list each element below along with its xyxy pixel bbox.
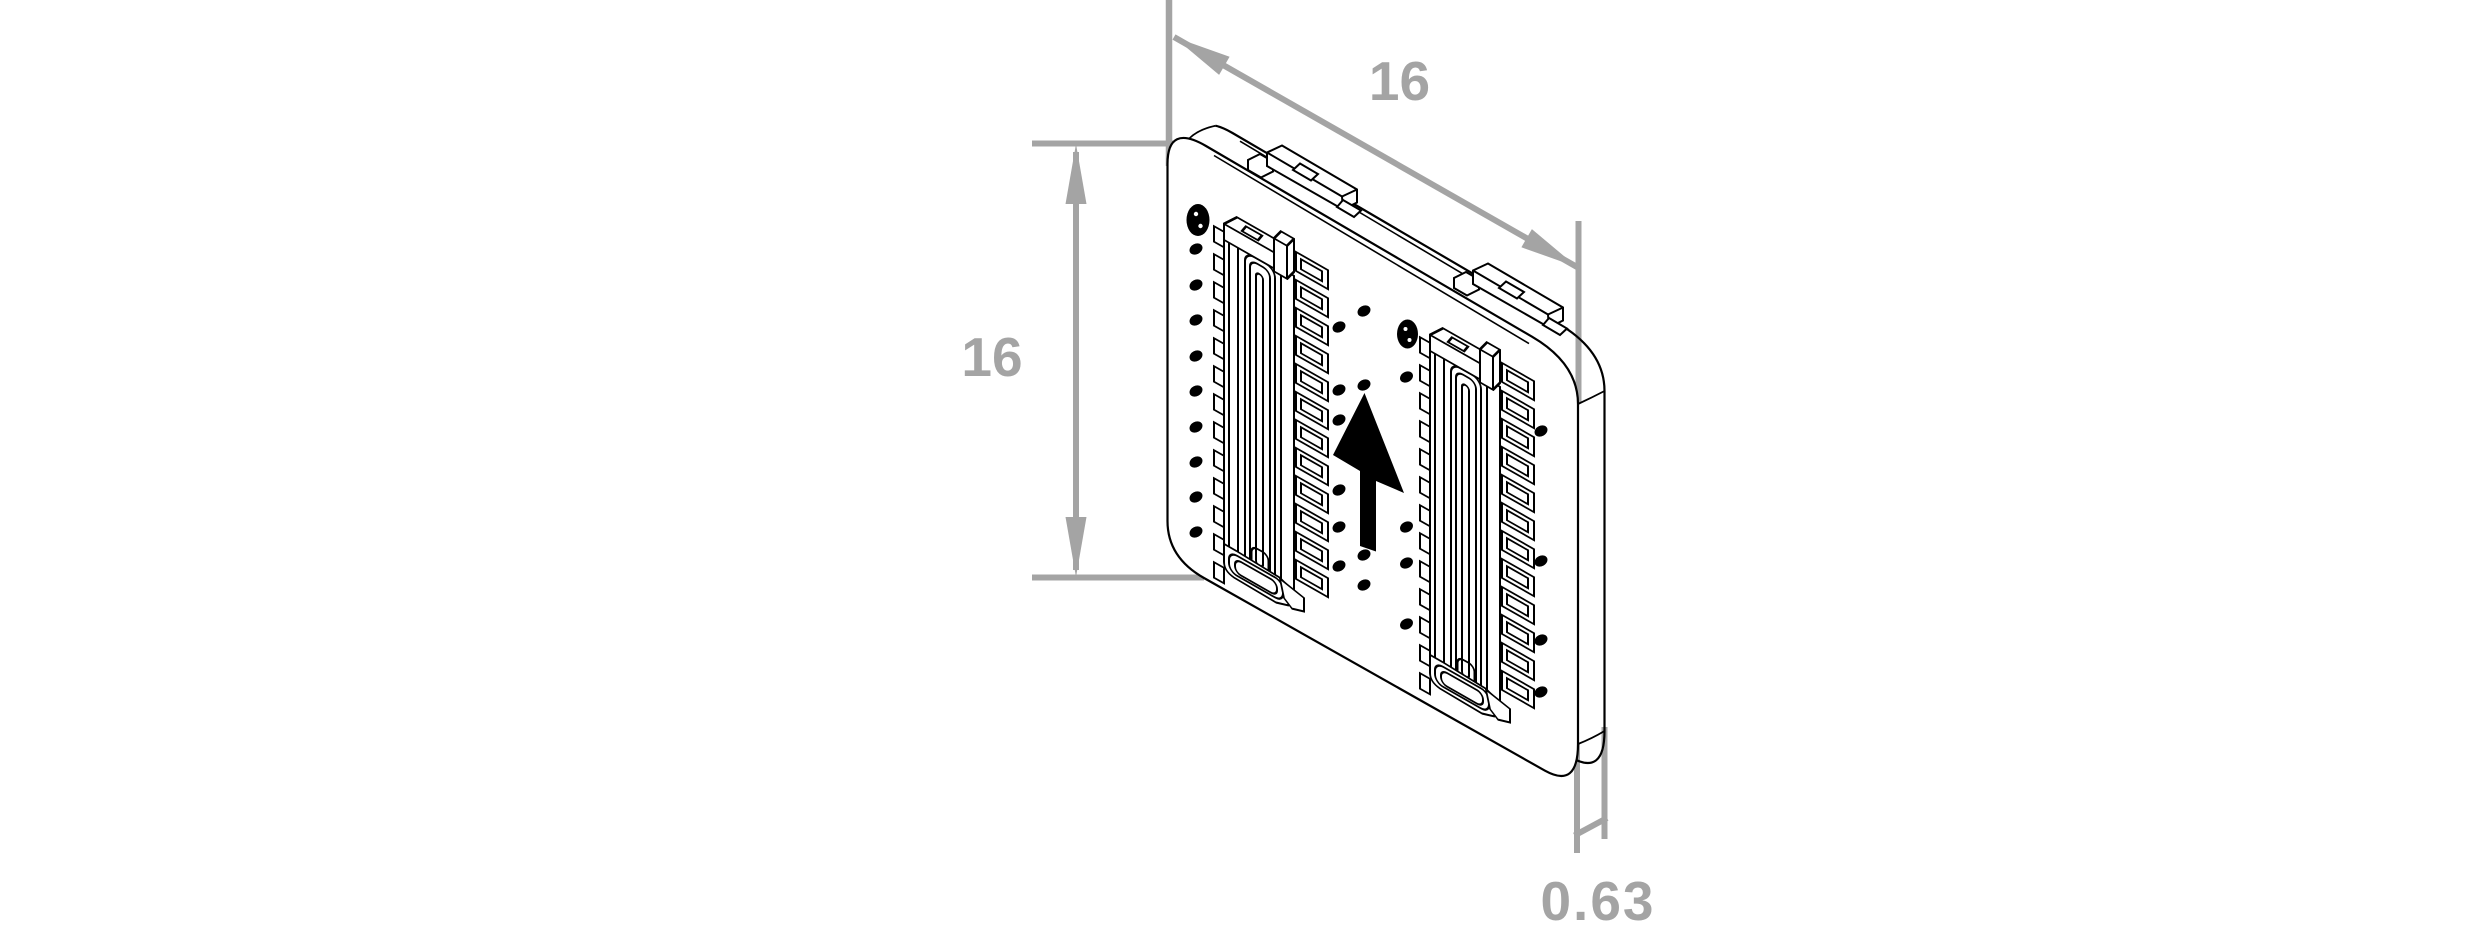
arrowhead up [1066,144,1087,204]
top edge bump right (connector shell) [1454,264,1567,336]
mounting hole top-left [1187,204,1210,236]
svg-text:16: 16 [1369,50,1430,112]
svg-text:0.63: 0.63 [1540,870,1655,927]
arrowhead upper-left [1174,37,1230,75]
board back top edge inner line [1240,141,1556,329]
arrowhead down [1066,517,1087,577]
connector J2 (right board-to-board) [1420,304,1534,753]
dimension extension line top-left vertical [1166,0,1173,166]
vertical dimension line 16 [1073,152,1079,570]
board front top edge inner line [1214,156,1529,344]
orientation arrow [1333,393,1404,552]
thickness extension line front [1574,743,1580,853]
connector J1 (left board-to-board) [1214,193,1328,642]
thickness extension line back [1602,727,1608,839]
board back silhouette top and right [1216,126,1605,763]
corner seam bottom-right [1578,731,1605,744]
arrowhead lower-right [1521,229,1577,267]
corner seam top-right [1578,391,1605,404]
mounting hole center [1397,320,1418,349]
diagonal dimension line 16 [1174,37,1577,267]
board front face outline [1168,138,1579,776]
dimension extension line right vertical [1576,221,1582,403]
via holes [1188,241,1550,700]
dimension extension line left-bottom horizontal [1032,575,1204,581]
dimension extension line left-top horizontal [1032,141,1188,147]
svg-text:16: 16 [961,326,1022,388]
top edge bump left (connector shell) [1248,146,1361,218]
corner seam top-left [1189,126,1216,139]
thickness dimension tick [1575,818,1608,836]
